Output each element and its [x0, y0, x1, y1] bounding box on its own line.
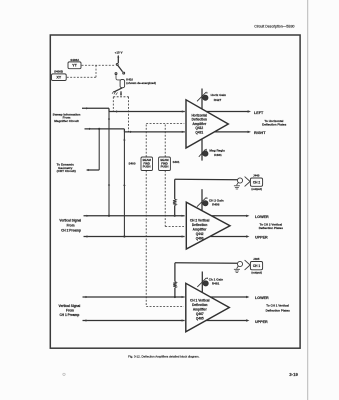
- svg-text:S401: S401: [173, 160, 180, 164]
- svg-text:J465: J465: [253, 257, 260, 261]
- svg-text:Q431: Q431: [195, 131, 203, 135]
- svg-text:CH 1: CH 1: [253, 264, 260, 268]
- svg-text:Q442: Q442: [196, 232, 204, 236]
- svg-text:Deflection: Deflection: [192, 223, 207, 227]
- svg-text:Fig. 3-12. Deflection Amplifie: Fig. 3-12. Deflection Amplifiers detaile…: [128, 355, 199, 359]
- svg-text:CH 1 Vertical: CH 1 Vertical: [190, 299, 210, 303]
- svg-text:CH 2 Vertical: CH 2 Vertical: [190, 218, 210, 222]
- svg-text:Ch 1 Gain: Ch 1 Gain: [209, 277, 224, 281]
- svg-text:J440: J440: [253, 174, 260, 178]
- svg-text:From: From: [66, 309, 74, 313]
- svg-text:Vertical Signal: Vertical Signal: [59, 219, 81, 223]
- svg-text:S400: S400: [128, 162, 135, 166]
- svg-text:CH 2: CH 2: [253, 180, 260, 184]
- svg-text:Deflection: Deflection: [192, 303, 207, 307]
- svg-text:UPPER: UPPER: [255, 320, 268, 324]
- svg-text:(output): (output): [251, 271, 262, 275]
- svg-text:R427: R427: [214, 98, 222, 102]
- svg-text:R456: R456: [212, 202, 220, 206]
- svg-text:Amplifier: Amplifier: [192, 122, 207, 126]
- svg-text:S406B: S406B: [54, 70, 63, 74]
- svg-text:Deflection Plates: Deflection Plates: [262, 123, 287, 127]
- svg-text:Deflection: Deflection: [192, 118, 207, 122]
- svg-text:Magnifier Circuit: Magnifier Circuit: [54, 119, 78, 123]
- svg-text:RIGHT: RIGHT: [254, 131, 266, 135]
- svg-text:R481: R481: [212, 282, 220, 286]
- svg-text:LOWER: LOWER: [255, 296, 269, 300]
- svg-text:PUSH: PUSH: [161, 165, 169, 169]
- svg-text:XY: XY: [56, 76, 61, 80]
- svg-text:Amplifier: Amplifier: [193, 308, 208, 312]
- svg-text:Horiz Gain: Horiz Gain: [211, 93, 227, 97]
- svg-text:(output): (output): [251, 187, 262, 191]
- svg-text:Q485: Q485: [196, 317, 204, 321]
- svg-text:(CRT Circuit): (CRT Circuit): [57, 169, 76, 173]
- svg-text:Q412: Q412: [195, 126, 203, 130]
- svg-text:+15 V: +15 V: [115, 50, 123, 54]
- svg-text:UPPER: UPPER: [255, 236, 268, 240]
- svg-text:YT: YT: [72, 64, 77, 68]
- svg-text:PUSH: PUSH: [143, 165, 151, 169]
- svg-text:Circuit Description—5B30: Circuit Description—5B30: [254, 25, 294, 29]
- svg-text:Deflection Plates: Deflection Plates: [266, 308, 291, 312]
- svg-text:LOWER: LOWER: [255, 215, 269, 219]
- svg-text:Q460: Q460: [196, 236, 204, 240]
- svg-text:To CH 1 Vertical: To CH 1 Vertical: [266, 304, 289, 308]
- svg-text:CH 1 Preamp: CH 1 Preamp: [59, 313, 79, 317]
- svg-text:3-19: 3-19: [289, 372, 298, 377]
- svg-text:R481: R481: [214, 153, 222, 157]
- svg-text:Vertical Signal: Vertical Signal: [59, 304, 81, 308]
- svg-text:Horizontal: Horizontal: [192, 113, 208, 117]
- svg-text:Q467: Q467: [196, 312, 204, 316]
- svg-text:CH 2 Preamp: CH 2 Preamp: [61, 228, 81, 232]
- svg-text:Deflection Plates: Deflection Plates: [259, 226, 284, 230]
- svg-text:(shown de-energized): (shown de-energized): [126, 81, 156, 85]
- svg-text:From: From: [67, 224, 75, 228]
- svg-text:Amplifier: Amplifier: [193, 227, 208, 231]
- svg-text:Mag Regis: Mag Regis: [209, 149, 225, 153]
- svg-text:LEFT: LEFT: [254, 111, 264, 115]
- svg-text:CH 2 Gain: CH 2 Gain: [209, 198, 224, 202]
